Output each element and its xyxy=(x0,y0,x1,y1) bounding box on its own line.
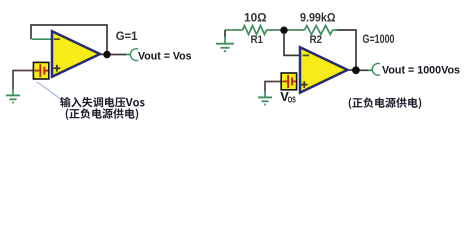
svg-text:10Ω: 10Ω xyxy=(244,13,267,25)
svg-text:R2: R2 xyxy=(310,34,323,46)
svg-text:OS: OS xyxy=(288,96,296,105)
svg-text:G=1: G=1 xyxy=(116,31,138,43)
svg-text:Vout = Vos: Vout = Vos xyxy=(138,51,192,63)
svg-text:G=1000: G=1000 xyxy=(363,34,395,46)
svg-text:R1: R1 xyxy=(251,34,264,46)
svg-text:Vout = 1000Vos: Vout = 1000Vos xyxy=(382,65,460,77)
svg-text:9.99kΩ: 9.99kΩ xyxy=(300,13,336,25)
